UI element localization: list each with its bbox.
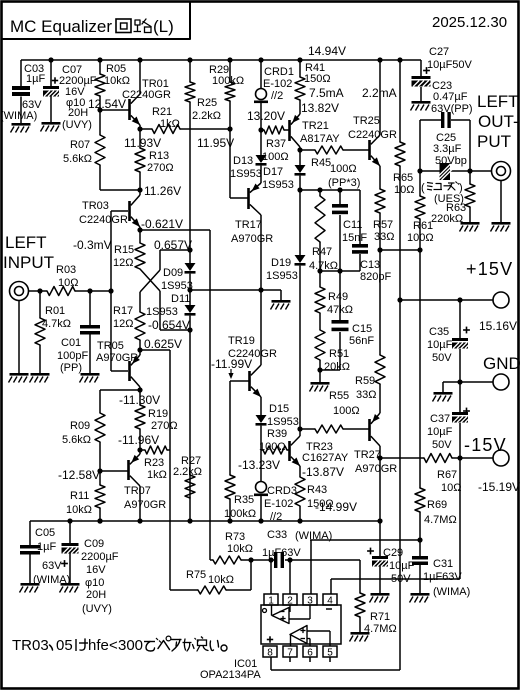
svg-text:1S953: 1S953	[230, 168, 262, 180]
svg-text:4.7kΩ: 4.7kΩ	[309, 260, 338, 272]
svg-text:E-102: E-102	[263, 78, 292, 90]
svg-text:16V: 16V	[86, 564, 106, 576]
svg-text:220kΩ: 220kΩ	[431, 213, 463, 225]
svg-text:R03: R03	[56, 264, 76, 276]
svg-text:TR25: TR25	[353, 115, 380, 127]
svg-text:-14.99V: -14.99V	[315, 500, 357, 514]
svg-text:C2240GR: C2240GR	[122, 89, 171, 101]
svg-text:D19: D19	[271, 257, 291, 269]
svg-text:R69: R69	[427, 499, 447, 511]
svg-text:150Ω: 150Ω	[304, 73, 331, 85]
svg-text:R59: R59	[355, 375, 375, 387]
svg-text:R09: R09	[70, 420, 90, 432]
svg-text:R35: R35	[234, 494, 254, 506]
svg-text:1S953: 1S953	[262, 179, 294, 191]
svg-text:6: 6	[307, 648, 313, 659]
svg-text:C09: C09	[84, 538, 104, 550]
svg-text:1kΩ: 1kΩ	[147, 469, 167, 481]
svg-text://2: //2	[271, 90, 283, 102]
svg-text:C27: C27	[429, 46, 449, 58]
svg-text:20H: 20H	[68, 107, 88, 119]
svg-text:R71: R71	[370, 611, 390, 623]
svg-text:13.82V: 13.82V	[301, 101, 339, 115]
svg-text:A970GR: A970GR	[355, 463, 397, 475]
svg-text:TR19: TR19	[228, 335, 255, 347]
svg-text:PUT: PUT	[477, 132, 511, 151]
svg-text:0.625V: 0.625V	[144, 337, 182, 351]
svg-text:5.6kΩ: 5.6kΩ	[62, 434, 91, 446]
svg-text:-12.58V: -12.58V	[58, 468, 100, 482]
svg-text:OPA2134PA: OPA2134PA	[200, 669, 261, 681]
svg-text:R13: R13	[149, 150, 169, 162]
svg-text:1µF: 1µF	[26, 73, 45, 85]
svg-text:820pF: 820pF	[360, 271, 391, 283]
svg-text:-11.96V: -11.96V	[118, 433, 159, 447]
svg-text:TR17: TR17	[235, 219, 262, 231]
svg-text:TR07: TR07	[124, 485, 151, 497]
svg-text:R57: R57	[373, 219, 393, 231]
svg-text:R11: R11	[70, 490, 89, 502]
svg-text:TR05: TR05	[97, 340, 124, 352]
svg-text:R61: R61	[413, 220, 433, 232]
svg-text:1: 1	[268, 596, 274, 607]
svg-text:E-102: E-102	[264, 498, 293, 510]
svg-text:(WIMA): (WIMA)	[33, 574, 70, 586]
svg-text:12.54V: 12.54V	[88, 97, 126, 111]
svg-text:C31: C31	[433, 558, 453, 570]
svg-text:C29: C29	[383, 547, 403, 559]
svg-text:50V: 50V	[391, 573, 411, 585]
svg-text:10kΩ: 10kΩ	[208, 574, 234, 586]
svg-text:C1627AY: C1627AY	[302, 452, 349, 464]
svg-text:R51: R51	[329, 348, 349, 360]
svg-text:CRD3: CRD3	[267, 485, 297, 497]
svg-text:100kΩ: 100kΩ	[212, 75, 244, 87]
svg-text:33Ω: 33Ω	[356, 389, 376, 401]
svg-text:2025.12.30: 2025.12.30	[432, 14, 507, 31]
svg-text:33Ω: 33Ω	[374, 231, 394, 243]
svg-text:TR27: TR27	[354, 449, 381, 461]
svg-text:14.94V: 14.94V	[308, 44, 346, 58]
svg-text:10kΩ: 10kΩ	[104, 75, 130, 87]
svg-text:10µF: 10µF	[427, 339, 453, 351]
svg-text:R55: R55	[329, 390, 349, 402]
svg-text:10Ω: 10Ω	[441, 482, 461, 494]
svg-text:-13.87V: -13.87V	[302, 465, 344, 479]
svg-text:-0.3mV: -0.3mV	[73, 238, 112, 252]
svg-text:11.93V: 11.93V	[124, 136, 161, 150]
svg-text:): )	[459, 182, 463, 194]
svg-text:0.47µF: 0.47µF	[433, 91, 468, 103]
svg-text:(: (	[421, 182, 425, 194]
svg-text:7.5mA: 7.5mA	[309, 86, 344, 100]
svg-text:7: 7	[287, 648, 293, 659]
svg-text:100pF: 100pF	[57, 350, 88, 362]
svg-text:A817AY: A817AY	[300, 133, 340, 145]
svg-text:C05: C05	[35, 527, 55, 539]
svg-text:R37: R37	[266, 138, 286, 150]
svg-text:2.2mA: 2.2mA	[362, 86, 397, 100]
svg-text:270Ω: 270Ω	[151, 420, 178, 432]
svg-text:R73: R73	[225, 531, 245, 543]
svg-text:C2240GR: C2240GR	[79, 214, 128, 226]
svg-text:(PP*3): (PP*3)	[328, 177, 360, 189]
svg-text:(UES): (UES)	[434, 193, 464, 205]
svg-text:C37: C37	[430, 413, 450, 425]
svg-text:4.7MΩ: 4.7MΩ	[364, 623, 397, 635]
svg-text:hfe: hfe	[88, 637, 109, 654]
svg-text:LEFT: LEFT	[5, 233, 47, 252]
svg-text:R05: R05	[106, 63, 126, 75]
svg-text:R15: R15	[114, 244, 134, 256]
svg-text:R43: R43	[307, 484, 327, 496]
svg-text:15nF: 15nF	[342, 232, 367, 244]
svg-text:1S953: 1S953	[266, 270, 298, 282]
svg-text:TR03: TR03	[82, 200, 109, 212]
svg-text:TR03: TR03	[12, 637, 49, 654]
svg-text:20kΩ: 20kΩ	[324, 361, 350, 373]
svg-text:C13: C13	[360, 259, 380, 271]
svg-text:11.26V: 11.26V	[144, 184, 181, 198]
svg-text:R67: R67	[437, 469, 457, 481]
svg-text:10Ω: 10Ω	[394, 184, 414, 196]
svg-text:05: 05	[56, 637, 73, 654]
svg-text:1µF: 1µF	[37, 541, 56, 553]
svg-text:(L): (L)	[153, 17, 174, 36]
svg-text:63V(PP): 63V(PP)	[431, 103, 473, 115]
svg-text:-15.19V: -15.19V	[478, 480, 520, 494]
svg-text:+15V: +15V	[466, 259, 513, 279]
svg-text:13.20V: 13.20V	[247, 109, 285, 123]
svg-text:10µF: 10µF	[427, 426, 453, 438]
svg-text:<: <	[109, 637, 118, 654]
svg-text:100Ω: 100Ω	[262, 151, 289, 163]
svg-text:10µF: 10µF	[389, 560, 415, 572]
svg-text:270Ω: 270Ω	[147, 162, 174, 174]
svg-text:12Ω: 12Ω	[113, 318, 133, 330]
svg-text:0.657V: 0.657V	[154, 238, 192, 252]
svg-text:LEFT: LEFT	[477, 92, 519, 111]
svg-text:R25: R25	[197, 97, 217, 109]
svg-text:GND: GND	[483, 354, 520, 373]
svg-text:D15: D15	[269, 403, 289, 415]
svg-text:R17: R17	[113, 305, 133, 317]
svg-text:2: 2	[287, 596, 293, 607]
svg-text:2200µF: 2200µF	[81, 551, 119, 563]
svg-text:8: 8	[267, 648, 273, 659]
svg-text:15.16V: 15.16V	[479, 319, 517, 333]
svg-text:-0.654V: -0.654V	[148, 318, 190, 332]
svg-text:R75: R75	[186, 569, 206, 581]
svg-text:1kΩ: 1kΩ	[160, 118, 180, 130]
svg-text:A970GR: A970GR	[96, 352, 138, 364]
svg-text:D11: D11	[171, 293, 190, 305]
svg-text:-13.23V: -13.23V	[238, 458, 280, 472]
svg-text:63V: 63V	[42, 560, 62, 572]
svg-text:INPUT: INPUT	[3, 253, 54, 272]
svg-text:C01: C01	[61, 337, 81, 349]
svg-text:3: 3	[307, 596, 313, 607]
svg-text://2: //2	[270, 511, 282, 523]
svg-text:100Ω: 100Ω	[333, 405, 360, 417]
svg-text:1µF63V: 1µF63V	[423, 571, 462, 583]
svg-text:-0.621V: -0.621V	[141, 217, 183, 231]
svg-text:4.7MΩ: 4.7MΩ	[424, 514, 457, 526]
svg-text:100Ω: 100Ω	[330, 163, 357, 175]
svg-text:5: 5	[327, 648, 333, 659]
svg-text:R23: R23	[144, 457, 164, 469]
svg-text:10kΩ: 10kΩ	[66, 504, 92, 516]
svg-text:12Ω: 12Ω	[113, 257, 133, 269]
svg-text:100Ω: 100Ω	[407, 232, 434, 244]
svg-text:A970GR: A970GR	[124, 499, 166, 511]
svg-text:C2240GR: C2240GR	[348, 129, 397, 141]
svg-text:10µF50V: 10µF50V	[427, 59, 473, 71]
svg-text:(PP): (PP)	[60, 362, 82, 374]
svg-text:-11.99V: -11.99V	[211, 357, 252, 371]
svg-text:MC Equalizer: MC Equalizer	[10, 17, 112, 36]
svg-text:C33: C33	[267, 529, 287, 541]
svg-text:R39: R39	[267, 428, 287, 440]
svg-text:1S953: 1S953	[161, 280, 193, 292]
svg-text:2.2kΩ: 2.2kΩ	[173, 466, 202, 478]
svg-text:C15: C15	[352, 323, 372, 335]
svg-text:3.3µF: 3.3µF	[433, 143, 462, 155]
svg-text:(WIMA): (WIMA)	[295, 530, 332, 542]
svg-text:D17: D17	[263, 166, 283, 178]
svg-text:2.2kΩ: 2.2kΩ	[192, 110, 221, 122]
svg-text:-15V: -15V	[464, 435, 507, 455]
svg-text:φ10: φ10	[85, 577, 104, 589]
svg-text:5.6kΩ: 5.6kΩ	[63, 153, 92, 165]
svg-text:CRD1: CRD1	[264, 66, 294, 78]
svg-text:(UVY): (UVY)	[82, 603, 112, 615]
svg-text:R65: R65	[393, 172, 413, 184]
svg-text:1S953: 1S953	[146, 306, 178, 318]
svg-text:R19: R19	[148, 408, 168, 420]
svg-text:R45: R45	[311, 157, 331, 169]
svg-text:50V: 50V	[432, 352, 452, 364]
svg-text:A970GR: A970GR	[231, 233, 273, 245]
svg-text:1S953: 1S953	[267, 416, 299, 428]
svg-text:TR21: TR21	[302, 120, 329, 132]
svg-text:50Vbp: 50Vbp	[435, 155, 467, 167]
svg-text:56nF: 56nF	[349, 335, 374, 347]
svg-text:R49: R49	[328, 291, 348, 303]
svg-text:D09: D09	[163, 267, 183, 279]
svg-text:50V: 50V	[432, 439, 452, 451]
svg-text:300: 300	[118, 637, 143, 654]
svg-text:D13: D13	[233, 155, 253, 167]
svg-text:47kΩ: 47kΩ	[327, 304, 353, 316]
svg-text:(WIMA): (WIMA)	[0, 110, 37, 122]
svg-text:10kΩ: 10kΩ	[227, 543, 253, 555]
svg-text:11.95V: 11.95V	[197, 136, 234, 150]
svg-text:R07: R07	[70, 139, 90, 151]
svg-text:20H: 20H	[86, 589, 106, 601]
svg-text:R47: R47	[312, 246, 332, 258]
svg-text:4.7kΩ: 4.7kΩ	[42, 318, 71, 330]
svg-text:R21: R21	[152, 106, 172, 118]
svg-text:R01: R01	[45, 305, 65, 317]
svg-text:1µF63V: 1µF63V	[262, 547, 301, 559]
svg-text:OUT-: OUT-	[478, 112, 519, 131]
svg-text:C11: C11	[343, 219, 362, 231]
svg-text:10Ω: 10Ω	[58, 277, 78, 289]
svg-text:(WIMA): (WIMA)	[433, 586, 470, 598]
svg-text:100kΩ: 100kΩ	[224, 508, 256, 520]
svg-text:100Ω: 100Ω	[259, 441, 286, 453]
svg-text:4: 4	[327, 596, 333, 607]
svg-text:C35: C35	[429, 326, 449, 338]
svg-text:(UVY): (UVY)	[62, 119, 92, 131]
svg-text:-11.30V: -11.30V	[119, 393, 160, 407]
